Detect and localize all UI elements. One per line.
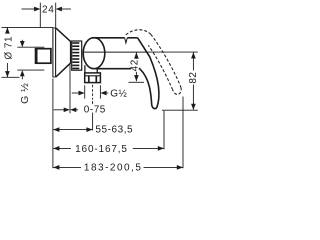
- dim 160-167,5: [53, 147, 71, 149]
- lever head top: [127, 37, 137, 39]
- svg-text:55-63,5: 55-63,5: [95, 124, 133, 135]
- dim O71 top extension line: [2, 26, 54, 28]
- outlet centerline: [92, 85, 94, 100]
- dim O71 dimension line with arrows: [6, 27, 8, 33]
- dim G1/2 inlet bottom extension line: [17, 69, 44, 71]
- dim G1/2 inlet arrow top: [21, 40, 23, 42]
- union nut outline: [72, 41, 82, 70]
- dim G1/2 inlet arrow bottom: [21, 75, 23, 79]
- dim O71 bottom extension line: [2, 76, 20, 78]
- svg-text:G½: G½: [110, 88, 127, 99]
- escutcheon cone top edge: [56, 28, 71, 41]
- dim 24 extension line left: [39, 3, 41, 28]
- svg-text:G ½: G ½: [19, 83, 31, 104]
- outlet neck: [84, 65, 86, 73]
- svg-text:183-200,5: 183-200,5: [84, 163, 143, 174]
- handle tip extension line: [163, 111, 165, 149]
- dashed handle inner edge: [148, 45, 172, 90]
- dim G1/2 outlet arrows: [72, 92, 80, 94]
- outlet hex flange: [85, 73, 101, 83]
- dim 82 dimension line: [192, 53, 194, 71]
- dashed handle head arc: [126, 30, 151, 35]
- dim 82 top extension line: [147, 51, 198, 53]
- handle outer edge: [138, 38, 159, 109]
- body sphere: [83, 38, 105, 69]
- dim 55-63,5: [53, 129, 92, 131]
- escutcheon cone bottom edge: [56, 63, 71, 77]
- dim 82 bottom extension line: [162, 109, 198, 111]
- svg-text:0-75: 0-75: [84, 105, 106, 116]
- dim 24 arrow right: [61, 8, 71, 10]
- body joint line: [83, 51, 146, 53]
- dashed handle outer edge: [151, 34, 181, 87]
- wall plate: [52, 28, 54, 78]
- dim G1/2 inlet top extension line: [17, 46, 44, 48]
- svg-text:24: 24: [42, 5, 54, 16]
- dim 0-75: [54, 109, 65, 111]
- body top profile: [93, 37, 125, 39]
- dashed handle tip: [173, 87, 182, 94]
- dim 183-200,5: [53, 166, 81, 168]
- dim 42 bottom extension line: [129, 81, 145, 83]
- escutcheon cone right edge: [70, 41, 72, 63]
- dashed tip extension line: [182, 97, 184, 169]
- cone corner extension line: [69, 64, 71, 113]
- top notch: [125, 38, 128, 43]
- dim 24 arrow left: [22, 8, 36, 10]
- union nut knurling: [72, 43, 79, 68]
- svg-text:82: 82: [188, 72, 199, 84]
- wall extension line lower: [52, 79, 54, 169]
- svg-text:42: 42: [130, 59, 141, 71]
- dim 24 extension line right: [55, 3, 57, 29]
- svg-text:160-167,5: 160-167,5: [75, 144, 128, 155]
- svg-text:Ø 71: Ø 71: [4, 36, 15, 60]
- body bottom line: [96, 68, 132, 70]
- inlet pipe square: [36, 49, 51, 64]
- dim 42 dimension line: [135, 52, 137, 58]
- outlet extension line left: [84, 85, 86, 98]
- outlet extension line right: [99, 85, 101, 98]
